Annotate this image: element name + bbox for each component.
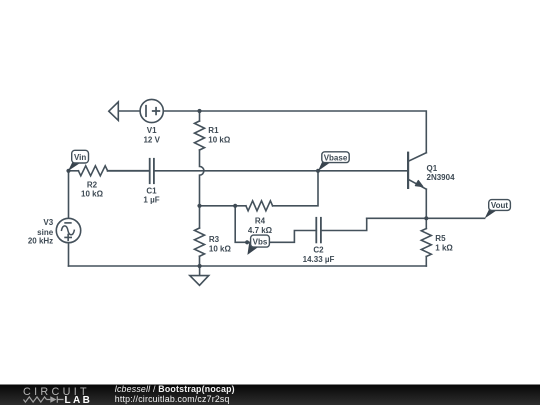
ground — [190, 266, 209, 285]
wire bottom ground rail — [69, 265, 427, 267]
node dot emitter/Vout — [424, 216, 428, 220]
svg-text:14.33 µF: 14.33 µF — [303, 255, 335, 264]
resistor R1 — [195, 121, 205, 150]
transistor Q1 — [408, 153, 426, 190]
wire R4 row node to node — [200, 205, 246, 207]
resistor R2 — [78, 166, 107, 176]
svg-text:lcbessell / Bootstrap(nocap): lcbessell / Bootstrap(nocap) — [115, 384, 235, 394]
wire Vout row — [367, 217, 485, 219]
svg-text:2N3904: 2N3904 — [427, 173, 456, 182]
wire C2 right plate to Vout row — [321, 218, 367, 230]
capacitor C1 — [108, 159, 154, 183]
flag Vout — [485, 200, 511, 219]
source V3 — [56, 218, 80, 242]
node dot Vbs — [245, 240, 249, 244]
wire top row V1 to collector corner — [118, 111, 426, 153]
svg-text:12 V: 12 V — [143, 136, 160, 145]
wire R1 top lead from top rail — [199, 111, 201, 121]
wire R4 right lead and up to Vbase node — [273, 171, 318, 206]
wire V3 bottom to ground rail — [68, 243, 70, 266]
svg-text:R3: R3 — [209, 235, 220, 244]
svg-text:R2: R2 — [87, 180, 98, 189]
node dot R1/R3/R4 — [197, 204, 201, 208]
svg-text:V3: V3 — [43, 218, 53, 227]
node dot Vin — [66, 169, 70, 173]
svg-text:1 µF: 1 µF — [143, 195, 159, 204]
wire Vin node to R2 left lead — [69, 170, 79, 172]
capacitor C2 — [316, 218, 321, 243]
svg-text:10 kΩ: 10 kΩ — [208, 136, 231, 145]
wire R1 bottom lead with hop over Vin row — [200, 150, 204, 206]
logo resistor-diode squiggle — [24, 396, 64, 403]
node dot Vbase — [316, 169, 320, 173]
svg-text:LAB: LAB — [65, 395, 93, 405]
svg-text:Vbs: Vbs — [253, 237, 268, 246]
wire R5 bottom lead — [425, 257, 427, 267]
flag Vbase — [318, 152, 349, 171]
svg-text:http://circuitlab.com/cz7r2sq: http://circuitlab.com/cz7r2sq — [115, 394, 230, 404]
svg-text:C1: C1 — [146, 187, 157, 196]
node dot ground rail — [198, 264, 202, 268]
wire R3 leads — [199, 206, 201, 266]
svg-text:R4: R4 — [255, 216, 266, 225]
node dot top rail/R1 — [197, 109, 201, 113]
svg-text:R5: R5 — [435, 234, 446, 243]
svg-text:Vbase: Vbase — [324, 153, 348, 162]
node dot R4/Vbs branch — [233, 204, 237, 208]
svg-text:C2: C2 — [313, 245, 324, 254]
wire Vin node down to V3 top — [68, 171, 70, 219]
svg-text:R1: R1 — [208, 126, 219, 135]
svg-text:Vout: Vout — [491, 201, 509, 210]
resistor R3 — [195, 228, 205, 256]
arrow terminal of V1 — [109, 102, 119, 121]
svg-text:10 kΩ: 10 kΩ — [209, 245, 232, 254]
resistor R5 — [421, 229, 431, 257]
svg-text:20 kHz: 20 kHz — [28, 237, 53, 246]
svg-text:V1: V1 — [147, 126, 157, 135]
source V1 — [140, 99, 163, 122]
wire Vin row: C1 right plate to Q1 base — [154, 170, 408, 172]
flag Vin — [68, 150, 89, 171]
svg-text:1 kΩ: 1 kΩ — [435, 244, 453, 253]
svg-text:4.7 kΩ: 4.7 kΩ — [248, 226, 273, 235]
svg-text:Q1: Q1 — [427, 164, 438, 173]
flag Vbs — [247, 235, 269, 255]
svg-text:10 kΩ: 10 kΩ — [81, 190, 104, 199]
resistor R4 — [246, 201, 273, 211]
wire Vbs branch down and to C2 left plate — [235, 206, 316, 243]
svg-text:Vin: Vin — [74, 153, 86, 162]
wire emitter down to Vout row and R5 top lead — [425, 189, 427, 228]
